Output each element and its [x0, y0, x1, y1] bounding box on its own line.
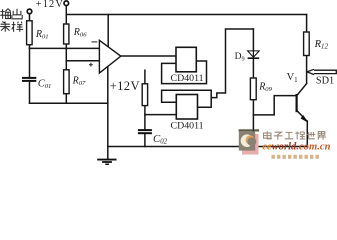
svg-text:C01: C01	[38, 78, 51, 90]
svg-text:R07: R07	[72, 75, 86, 87]
svg-text:V1: V1	[287, 72, 299, 84]
svg-text:SD1: SD1	[316, 75, 334, 86]
svg-text:CD4011: CD4011	[171, 121, 204, 132]
svg-text:D9: D9	[235, 52, 245, 63]
svg-text:R09: R09	[258, 81, 272, 93]
svg-text:eeworld.com.cn: eeworld.com.cn	[262, 142, 330, 153]
svg-text:CD4011: CD4011	[171, 73, 204, 84]
svg-text:+12V: +12V	[36, 0, 64, 10]
svg-text:R06: R06	[73, 27, 87, 39]
svg-text:R12: R12	[314, 39, 329, 51]
svg-text:+12V: +12V	[110, 79, 140, 93]
svg-text:C02: C02	[153, 133, 168, 146]
svg-text:R01: R01	[35, 29, 49, 41]
